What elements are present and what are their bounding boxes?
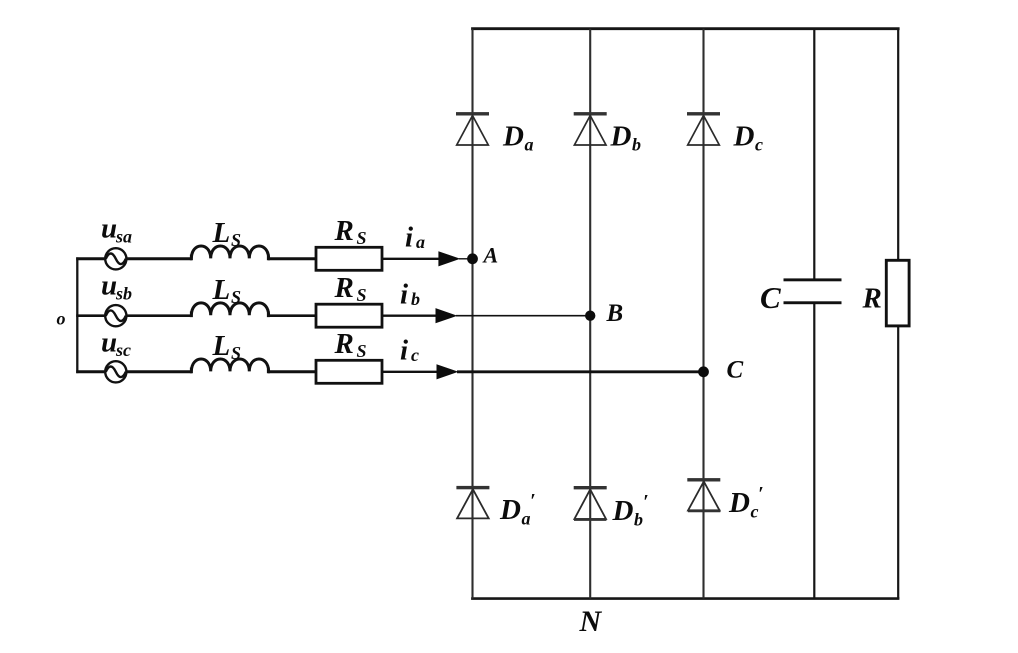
svg-text:D: D [728, 487, 750, 519]
label Rs row a [334, 215, 367, 248]
svg-text:b: b [632, 135, 641, 155]
wire bottom DC rail [471, 597, 899, 600]
svg-text:D: D [733, 121, 755, 153]
label Db' [612, 491, 649, 530]
node C [698, 366, 709, 377]
svg-text:A: A [482, 242, 499, 267]
svg-text:R: R [862, 283, 882, 315]
svg-text:L: L [212, 330, 231, 362]
wire left neutral bus [76, 257, 78, 373]
svg-text:R: R [334, 328, 354, 360]
svg-text:D: D [610, 121, 632, 153]
label B [606, 300, 624, 327]
svg-text:′: ′ [643, 491, 649, 513]
current arrow i_c [437, 364, 459, 379]
svg-text:i: i [400, 335, 408, 367]
diode Da' [456, 486, 489, 519]
label C [760, 280, 781, 315]
label i_a [405, 221, 425, 253]
svg-text:b: b [411, 289, 420, 309]
svg-text:i: i [405, 221, 413, 253]
diode Dc [687, 112, 720, 145]
svg-text:R: R [334, 272, 354, 304]
svg-text:a: a [416, 232, 425, 252]
inductor Ls row c [191, 359, 268, 373]
svg-text:c: c [411, 345, 419, 365]
svg-text:S: S [231, 287, 241, 307]
svg-text:B: B [606, 300, 624, 327]
label Da [502, 121, 534, 155]
svg-text:S: S [231, 343, 241, 363]
svg-text:C: C [727, 357, 744, 384]
load resistor R [886, 260, 909, 326]
label Dc [733, 121, 764, 155]
svg-text:S: S [357, 228, 367, 248]
svg-text:L: L [212, 217, 231, 249]
voltage source u_sc [105, 361, 126, 382]
svg-text:u: u [101, 327, 117, 359]
wire phase-c column [702, 29, 704, 599]
label u_sc [101, 327, 131, 361]
node B [585, 311, 595, 321]
svg-text:sa: sa [115, 227, 132, 247]
label R [862, 283, 882, 315]
svg-text:C: C [760, 280, 781, 315]
label Dc' [728, 483, 764, 522]
svg-text:D: D [612, 495, 634, 527]
label u_sb [101, 270, 132, 304]
diode Da [456, 112, 489, 145]
voltage source u_sa [105, 248, 126, 269]
label u_sa [101, 213, 132, 247]
current arrow i_a [438, 251, 460, 266]
label i_b [400, 278, 420, 310]
svg-text:S: S [231, 230, 241, 250]
svg-text:D: D [499, 494, 521, 526]
wire phase-a column [471, 29, 473, 599]
wire top DC rail [471, 27, 899, 30]
resistor Rs row a [316, 247, 382, 270]
svg-text:b: b [634, 510, 643, 530]
svg-text:D: D [502, 121, 524, 153]
svg-text:′: ′ [758, 483, 764, 505]
voltage source u_sb [105, 305, 126, 326]
label A [482, 242, 499, 267]
wire capacitor branch [813, 29, 815, 599]
capacitor C [784, 278, 842, 304]
svg-text:S: S [357, 341, 367, 361]
svg-text:u: u [101, 270, 117, 302]
resistor Rs row b [316, 304, 382, 327]
resistor Rs row c [316, 360, 382, 383]
label C [727, 357, 744, 384]
svg-text:S: S [357, 285, 367, 305]
label Db [610, 121, 642, 155]
svg-text:L: L [212, 274, 231, 306]
wire load branch [897, 29, 899, 599]
diode Dc' [687, 478, 720, 511]
label Rs row b [334, 272, 367, 305]
svg-text:o: o [57, 309, 66, 329]
diode Db' [574, 486, 607, 520]
label i_c [400, 335, 419, 367]
label Da' [499, 490, 536, 529]
svg-text:i: i [400, 278, 408, 310]
inductor Ls row b [191, 303, 268, 317]
svg-text:′: ′ [530, 490, 536, 512]
label Ls row a [212, 217, 242, 250]
wire phase-b column [589, 29, 591, 599]
wire row a [76, 257, 469, 260]
svg-text:N: N [579, 605, 603, 638]
label Ls row c [212, 330, 242, 363]
label Ls row b [212, 274, 242, 307]
svg-text:u: u [101, 213, 117, 245]
svg-text:R: R [334, 215, 354, 247]
node N label [579, 605, 603, 638]
inductor Ls row a [191, 246, 268, 260]
svg-text:sc: sc [115, 340, 131, 360]
node A [467, 253, 478, 264]
diode Db [574, 112, 607, 145]
wire row b [76, 314, 590, 317]
wire row c [76, 370, 703, 373]
svg-text:c: c [755, 135, 763, 155]
label Rs row c [334, 328, 367, 361]
current arrow i_b [436, 308, 458, 323]
node o label [57, 309, 66, 329]
svg-text:sb: sb [115, 284, 132, 304]
svg-text:a: a [525, 135, 534, 155]
